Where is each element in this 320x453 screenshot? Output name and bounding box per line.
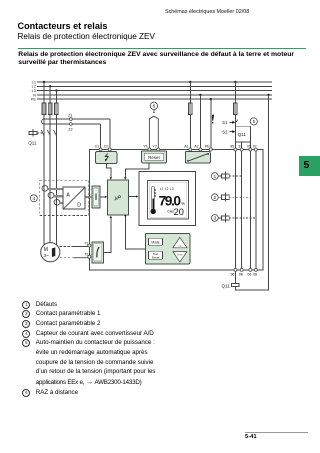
summation transformer loop lower wire Z2	[44, 123, 101, 125]
terminal Y2	[157, 148, 160, 151]
svg-text:A: A	[66, 192, 70, 198]
label C1 C2	[95, 145, 109, 149]
button Test-Reset	[148, 251, 162, 259]
svg-text:A2: A2	[194, 145, 198, 149]
svg-text:96: 96	[231, 273, 235, 277]
wire coil3 to AD	[59, 202, 63, 204]
svg-text:98: 98	[239, 273, 243, 277]
svg-text:3: 3	[213, 216, 216, 222]
svg-text:95: 95	[230, 145, 234, 149]
label 96 98 06 08	[231, 273, 258, 277]
wire latch to terminal 97	[241, 142, 243, 148]
svg-text:µP: µP	[115, 196, 122, 202]
svg-text:Reset: Reset	[152, 255, 160, 259]
summation transformer loop upper wire Z1	[44, 118, 110, 120]
label T1 T2	[84, 241, 88, 256]
svg-text:D: D	[77, 203, 81, 209]
motor thermistor element	[52, 247, 55, 257]
terminal Z2	[69, 123, 72, 126]
svg-text:Reset: Reset	[148, 155, 160, 160]
svg-text:C2: C2	[104, 145, 109, 149]
contactor coil Q11	[231, 284, 239, 287]
svg-text:3~: 3~	[44, 253, 50, 258]
terminal 95	[234, 148, 237, 151]
node N tap A2 feed	[199, 94, 201, 96]
label 4 circled	[30, 195, 37, 202]
wire current sensor to input box	[85, 196, 92, 198]
reset box	[142, 151, 167, 163]
wire uP to mode-test	[125, 215, 145, 249]
wire L3 rail	[37, 90, 272, 92]
wire control feed vertical	[234, 82, 236, 103]
section title	[18, 51, 318, 68]
svg-text:Z1: Z1	[68, 114, 72, 118]
thermometer icon	[152, 187, 156, 210]
wire thermistor box to uP	[103, 218, 110, 253]
power supply box	[185, 152, 210, 163]
page tab 5	[299, 156, 320, 176]
fuse F2	[48, 103, 52, 115]
wire PE rail	[37, 98, 272, 100]
svg-text:A1: A1	[184, 145, 188, 149]
svg-text:Q11: Q11	[238, 132, 247, 137]
page number	[245, 434, 257, 440]
wire L1 rail	[37, 81, 272, 83]
wire internal 07	[255, 151, 257, 268]
green rule	[18, 48, 307, 49]
display inner bezel	[148, 181, 189, 219]
current input box	[92, 186, 100, 208]
wire C1 stub	[100, 150, 102, 153]
terminal 98	[240, 268, 243, 271]
terminal T1	[88, 244, 91, 247]
svg-text:05: 05	[247, 145, 251, 149]
terminal A1	[189, 148, 192, 151]
earth-fault detection box	[96, 152, 117, 164]
wire thermistor lead 2 dashed	[60, 257, 74, 259]
button Mode	[148, 238, 162, 245]
button up	[173, 237, 187, 247]
svg-text:C1: C1	[95, 145, 100, 149]
contact blade phase2	[47, 130, 50, 136]
contact blade phase3	[54, 130, 57, 136]
svg-text:Y1: Y1	[143, 145, 147, 149]
svg-text:08: 08	[253, 273, 257, 277]
button down	[173, 252, 187, 262]
wire internal 97	[241, 151, 243, 268]
terminal Z1	[69, 118, 72, 121]
rail labels	[31, 79, 37, 101]
wire thermistor lead 1 dashed	[60, 246, 74, 248]
PE wire direction arrow	[212, 115, 214, 124]
terminal 96	[234, 268, 237, 271]
node PE tap	[210, 98, 212, 100]
contactor Q11 main contacts coil symbol	[29, 129, 37, 136]
ZEV relay box	[89, 150, 263, 270]
wire thermistor lead 1 to T1	[74, 246, 88, 247]
node L1 tap control feed	[234, 81, 236, 83]
thermistor symbol theta	[97, 247, 99, 258]
remote reset button body	[149, 116, 158, 148]
node L1 tap A1 feed	[189, 81, 191, 83]
wire L2 rail	[37, 85, 272, 87]
contactor block Q11 latch	[235, 126, 250, 142]
header small text	[165, 9, 249, 15]
wire phase3 vertical	[55, 91, 57, 245]
footer line	[245, 432, 308, 433]
remote reset button stub	[153, 110, 155, 111]
contact blade phase1	[41, 130, 44, 136]
current transformer coil 2	[48, 192, 54, 198]
remote reset label 6 circled	[150, 102, 157, 109]
terminal 08	[254, 268, 257, 271]
AD converter box	[63, 187, 85, 209]
svg-text:5: 5	[253, 119, 256, 124]
wire thermistor lead 2 to T2	[74, 256, 88, 259]
fuse F1	[42, 103, 46, 115]
current transformer coil 3	[54, 199, 60, 205]
thermistor input box	[92, 242, 103, 263]
svg-text:Down: Down	[177, 254, 184, 256]
terminal 05	[249, 148, 252, 151]
svg-text:S2: S2	[222, 129, 228, 134]
svg-text:L1 L2 L3: L1 L2 L3	[160, 187, 174, 191]
label 5 circled	[250, 118, 257, 125]
output relay 3	[211, 215, 218, 222]
label Y1 Y2	[143, 145, 156, 149]
wire A1 feed vertical	[189, 82, 191, 103]
svg-text:Q11: Q11	[222, 283, 231, 288]
display outer box	[139, 172, 196, 226]
node L2 tap phase2	[49, 85, 51, 87]
mode-test box	[145, 234, 190, 264]
svg-text:T1: T1	[84, 241, 88, 245]
fuse F5 control feed	[234, 103, 238, 115]
terminal Y1	[148, 148, 151, 151]
output relay 2	[211, 194, 218, 201]
power supply diagonal	[187, 153, 208, 161]
wire uP to display	[128, 196, 136, 198]
wire A2 feed vertical	[199, 95, 201, 148]
wire coil circuit and N return	[235, 95, 268, 290]
svg-text:1: 1	[213, 174, 216, 180]
wire input box to uP	[100, 196, 106, 198]
wire internal 95	[234, 151, 236, 268]
svg-text:97: 97	[238, 145, 242, 149]
header line 1	[18, 21, 108, 31]
header line 2	[18, 32, 155, 41]
wire earth-fault to uP	[106, 164, 110, 179]
current transformer coil 1	[42, 185, 48, 191]
svg-text:06: 06	[247, 273, 251, 277]
wire latch to terminal 05	[249, 142, 251, 148]
wire reset to uP	[125, 163, 149, 178]
terminal A2	[199, 148, 202, 151]
wire phase1 vertical	[43, 82, 45, 245]
svg-text:S1: S1	[222, 120, 228, 125]
earth-fault symbol	[105, 154, 108, 160]
node N tap coil return	[267, 94, 269, 96]
svg-text:4: 4	[32, 196, 35, 202]
terminal 07	[254, 148, 257, 151]
terminal C2	[108, 148, 111, 151]
terminal T2	[88, 255, 91, 258]
reset button face	[144, 153, 163, 160]
svg-text:Mode: Mode	[151, 240, 159, 244]
label 95 97 05 07	[230, 145, 257, 149]
wire Z2 to C1	[100, 124, 102, 148]
output relay 1	[211, 173, 218, 180]
svg-text:%: %	[181, 201, 185, 206]
wire PE feed vertical	[210, 99, 212, 148]
svg-text:T2: T2	[84, 253, 88, 257]
svg-text:PE: PE	[31, 97, 37, 102]
wire C2 stub	[109, 150, 111, 153]
svg-text:2: 2	[213, 195, 216, 201]
svg-text:20: 20	[174, 207, 184, 217]
svg-text:M: M	[44, 247, 48, 253]
wire internal 05	[249, 151, 251, 268]
svg-text:6: 6	[153, 104, 156, 110]
svg-text:07: 07	[253, 145, 257, 149]
fuse F4 A1 feed	[188, 103, 192, 115]
svg-text:PE: PE	[205, 145, 210, 149]
terminal C1	[99, 148, 102, 151]
wire Z1 to C2	[109, 119, 111, 148]
wire coil2 to AD	[53, 195, 63, 197]
terminal 06	[249, 268, 252, 271]
label A1 A2 PE	[184, 145, 210, 149]
svg-text:Z2: Z2	[68, 128, 72, 132]
fuse F3	[55, 103, 59, 115]
svg-text:Y2: Y2	[152, 145, 156, 149]
node L1 tap phase1	[43, 81, 45, 83]
terminal PE	[209, 148, 212, 151]
wire phase2 vertical	[49, 86, 51, 242]
summation transformer loop left arc	[42, 119, 44, 124]
node L3 tap phase3	[55, 89, 57, 91]
wire coil1 to AD	[47, 188, 63, 190]
sensor assembly dashed box	[40, 180, 89, 215]
microprocessor box uP	[107, 180, 128, 215]
terminal 97	[240, 148, 243, 151]
motor M1	[41, 243, 60, 262]
wire contactor link dashed	[38, 132, 44, 134]
legend	[22, 300, 155, 398]
wire N rail	[37, 94, 272, 96]
svg-text:Q11: Q11	[28, 140, 37, 145]
